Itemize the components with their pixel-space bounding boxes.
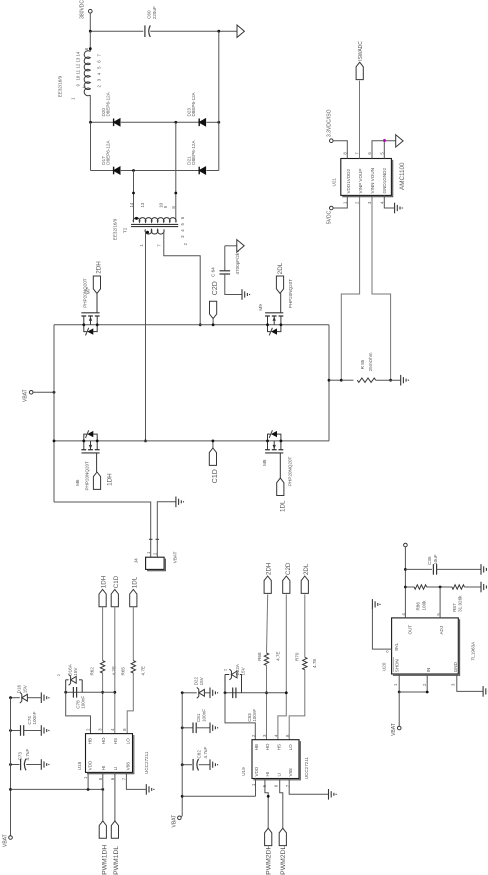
wire R68 to pin3 [265, 666, 268, 740]
inductor L1 left pin numbers [76, 51, 81, 86]
capacitor C74 [9, 711, 41, 735]
svg-text:C1D: C1D [212, 469, 219, 483]
svg-text:4700pF/2kV: 4700pF/2kV [235, 249, 240, 275]
wire diode row1 [89, 121, 220, 124]
zener D16A [56, 663, 82, 692]
svg-text:15V: 15V [241, 666, 246, 675]
U20 top pin numbers [401, 613, 441, 616]
svg-text:13: 13 [76, 57, 81, 62]
T2 right pin numbers [180, 216, 188, 245]
svg-text:14: 14 [129, 202, 134, 207]
svg-text:VBAT: VBAT [3, 834, 9, 847]
svg-text:VINN VOUN: VINN VOUN [370, 168, 375, 194]
svg-text:M6: M6 [75, 479, 80, 486]
svg-text:13: 13 [140, 202, 145, 207]
svg-text:VINP VOUP: VINP VOUP [358, 169, 363, 194]
flag PWM2DH [265, 828, 273, 875]
terminal arrow right (U21 out) [396, 135, 403, 147]
inductor L1 EE32/16/9 [58, 51, 91, 98]
svg-text:SHDN: SHDN [395, 659, 400, 672]
svg-text:R70: R70 [295, 652, 300, 661]
svg-text:1DL: 1DL [132, 576, 139, 588]
flag 1DL (M8 gate) [277, 478, 287, 512]
wire C1D to pin4 [113, 607, 116, 734]
wire U18 VDD rail [9, 698, 12, 836]
svg-text:D22: D22 [194, 677, 199, 686]
wire inductor bottom lead [70, 85, 90, 122]
svg-text:D16A: D16A [68, 663, 73, 675]
wire R70 to pin8 [289, 670, 305, 740]
resistor R85 25mOhm [357, 352, 375, 382]
wire R62 to junction [101, 673, 104, 734]
T2 bottom pin numbers [139, 244, 161, 247]
wire 380VDC rail with junction [89, 30, 143, 33]
wire U20 pin1 [398, 674, 401, 693]
svg-text:10uF: 10uF [433, 554, 438, 565]
flag C1D (driver out) [111, 575, 120, 607]
svg-text:OUT: OUT [408, 625, 413, 635]
svg-text:1DL: 1DL [279, 500, 286, 512]
svg-text:PWM1DL: PWM1DL [113, 846, 120, 875]
svg-text:3.3VDC/ISO: 3.3VDC/ISO [327, 109, 333, 137]
svg-text:31.926k: 31.926k [458, 595, 463, 612]
wire 2DH to R68 [267, 594, 268, 652]
svg-text:D8EP6-12A: D8EP6-12A [191, 91, 196, 116]
svg-text:LO: LO [288, 744, 293, 751]
wire J4 pin2 to ground [157, 502, 175, 557]
svg-text:C74: C74 [27, 716, 32, 725]
ground (D22) [210, 688, 218, 699]
wire HB to pin2 [66, 692, 91, 733]
svg-text:D8EP6-12A: D8EP6-12A [106, 140, 111, 165]
wire R86-R87 node [427, 586, 452, 589]
zener D16 [9, 684, 41, 703]
svg-text:1DH: 1DH [106, 473, 113, 486]
wire M8 gate [279, 453, 281, 478]
svg-text:U20: U20 [382, 662, 387, 671]
terminal arrow right (top) [237, 25, 244, 37]
resistor R68 4.7E [257, 651, 280, 665]
svg-text:VBAT: VBAT [391, 723, 397, 736]
wire U18 pin7 to ground [126, 772, 145, 789]
svg-text:C82: C82 [196, 750, 201, 759]
svg-text:C60: C60 [146, 10, 151, 19]
svg-text:14: 14 [76, 51, 81, 56]
svg-text:2DH: 2DH [266, 563, 273, 575]
svg-text:V88: V88 [288, 768, 293, 777]
ground (C35) [481, 564, 488, 575]
wire C2D to pin4 [278, 594, 286, 739]
flag 1DH (driver out) [99, 576, 108, 607]
svg-text:ADJ: ADJ [439, 626, 444, 635]
wire U20 pin2 [399, 674, 428, 693]
node 380VDC terminal [80, 0, 93, 31]
svg-text:4.7E: 4.7E [112, 666, 117, 675]
svg-text:VBAT: VBAT [23, 389, 29, 402]
svg-text:TAB: TAB [394, 643, 399, 651]
svg-text:HB: HB [87, 738, 92, 744]
wire U18 pin5 PWM1DH [102, 772, 104, 821]
wire inductor top lead [84, 31, 92, 51]
U21 top pin numbers [342, 152, 384, 155]
U18 top pin numbers [86, 728, 128, 731]
svg-text:T2: T2 [123, 227, 128, 233]
svg-text:HI: HI [101, 766, 106, 771]
flag C2D (rail R1) [210, 281, 219, 326]
diode D17 [101, 140, 120, 175]
svg-text:U19: U19 [241, 767, 246, 776]
wire M9 gate [280, 293, 282, 312]
svg-text:VBAT: VBAT [173, 551, 178, 563]
zener D22A [223, 663, 246, 693]
wire bridge right column [218, 31, 220, 170]
svg-text:GND1GND2: GND1GND2 [382, 168, 387, 194]
svg-text:M9: M9 [258, 304, 263, 311]
U19 pin names top [254, 743, 293, 750]
ic U19 UCC27211 box [241, 740, 309, 780]
ground (J4) [176, 497, 184, 508]
ic U18 UCC27211 box [77, 734, 149, 774]
svg-text:11: 11 [76, 69, 81, 74]
svg-text:AMC1100: AMC1100 [399, 162, 406, 190]
capacitor C64 [211, 246, 242, 295]
svg-text:R68: R68 [257, 652, 262, 661]
svg-text:100k: 100k [421, 600, 426, 611]
svg-text:C2D: C2D [285, 562, 292, 575]
flag 2DL (M9 gate) [276, 262, 284, 293]
ground (U20 TAB) [372, 599, 380, 610]
wire U19 pin7 to ground [289, 779, 328, 795]
ground (U19 pin7) [329, 789, 337, 800]
resistor R87 31.926k [452, 585, 464, 612]
zener D22 [181, 676, 210, 698]
svg-text:IN: IN [426, 668, 431, 673]
U19 top pin numbers [251, 734, 290, 737]
svg-text:1DH: 1DH [101, 576, 108, 588]
wire VDD horizontal [11, 788, 105, 791]
svg-text:J4: J4 [134, 558, 139, 563]
svg-text:5VDC: 5VDC [326, 210, 332, 224]
svg-text:R 85: R 85 [360, 359, 365, 369]
transistor M8 [262, 430, 292, 486]
svg-text:C2D: C2D [212, 281, 219, 295]
net 5VDC [326, 195, 347, 224]
svg-text:C1D: C1D [113, 575, 120, 588]
wire 1DH to R62 [102, 607, 104, 661]
flag 1DH (M6 gate) [93, 472, 113, 489]
wire T2 sec pin1 to rail R2 [144, 231, 147, 442]
U21 bottom pin numbers [342, 201, 384, 204]
svg-text:U21: U21 [332, 178, 337, 187]
svg-text:2DL: 2DL [303, 563, 310, 575]
svg-text:HO: HO [265, 743, 270, 750]
diode D21 [186, 140, 205, 175]
transformer T2 secondary [145, 229, 164, 234]
svg-text:4.7uF: 4.7uF [203, 747, 208, 759]
svg-text:VDD1VDD2: VDD1VDD2 [346, 169, 351, 194]
svg-text:VDD: VDD [87, 760, 92, 770]
wire 1DL to R65 [132, 607, 134, 661]
wire rail R1 [54, 324, 329, 326]
ground (R87) [481, 582, 488, 593]
wire rail R2 [54, 440, 329, 442]
wire U20 TAB to ground [372, 610, 391, 649]
wire C60 to arrow [150, 30, 237, 33]
capacitor C81 [181, 709, 210, 733]
svg-text:LO: LO [126, 738, 131, 745]
wire VBAT bus [53, 325, 55, 441]
wire U21 pin7 ISWADC [359, 81, 361, 159]
op-amp U21 AMC1100 box [332, 159, 407, 197]
U18 pin names bottom [87, 760, 130, 770]
svg-text:PHP20NQ20T: PHP20NQ20T [82, 278, 87, 308]
wire M7 gate [96, 293, 98, 312]
U21 pin names [346, 168, 387, 194]
svg-text:R62: R62 [90, 667, 95, 676]
svg-text:PHP20NQ20T: PHP20NQ20T [288, 279, 293, 309]
U20 bottom pin numbers [393, 683, 456, 686]
wire R87 to ground [464, 586, 480, 588]
svg-text:2DL: 2DL [277, 262, 284, 274]
svg-text:100nF: 100nF [202, 709, 207, 722]
svg-text:HO: HO [101, 737, 106, 744]
svg-text:PWM2DH: PWM2DH [266, 845, 273, 875]
flag C1D (rail R2) [209, 440, 219, 484]
U18 pin names top [87, 737, 130, 744]
svg-text:PWM2DL: PWM2DL [280, 846, 287, 875]
diode D23 [186, 91, 205, 126]
svg-text:D8EP6-12A: D8EP6-12A [191, 140, 196, 165]
wire U19 HB to pin2 [225, 693, 255, 740]
wire R65 to pin8 [127, 673, 133, 734]
svg-text:4.7E: 4.7E [141, 666, 146, 675]
svg-text:TL1963A: TL1963A [470, 641, 475, 661]
wire J4 pin1 feed [53, 440, 151, 558]
ground (C74) [41, 725, 49, 736]
svg-text:C 64: C 64 [211, 267, 216, 277]
flag ISWADC [356, 41, 364, 80]
svg-text:HB: HB [254, 744, 259, 750]
flag C2D (driver out) [283, 562, 292, 593]
ground (C64) [242, 289, 250, 300]
svg-text:15V: 15V [73, 667, 78, 676]
svg-text:12: 12 [76, 63, 81, 68]
svg-text:C81: C81 [196, 713, 201, 722]
svg-text:PHP20NQ20T: PHP20NQ20T [287, 456, 292, 486]
wire R86 feed [405, 586, 414, 588]
svg-text:EE32/16/9: EE32/16/9 [113, 218, 118, 240]
svg-text:15V: 15V [22, 684, 27, 693]
net VBAT (U18) [3, 834, 13, 847]
diode D20 [101, 91, 120, 126]
svg-text:4.7E: 4.7E [312, 659, 317, 668]
svg-text:LI: LI [277, 773, 282, 777]
svg-text:M8: M8 [262, 459, 267, 466]
wire shunt loop left [340, 195, 360, 381]
ground (U18 pin7) [146, 784, 154, 795]
wire U20 pin3 to ground [457, 674, 483, 691]
transistor M7 [81, 278, 99, 335]
svg-text:UCC27211: UCC27211 [304, 756, 309, 779]
transistor M6 [75, 430, 100, 490]
wire U20 pin5 ADJ [439, 587, 441, 618]
capacitor C60 [145, 6, 157, 37]
wire U19 pin5 PWM2DH [265, 779, 270, 829]
wire U19 VDD rail [181, 693, 184, 816]
svg-text:100nF: 100nF [252, 709, 257, 722]
ground (C82) [210, 759, 218, 770]
net VBAT terminal (left) [23, 389, 56, 402]
capacitor C78 [73, 687, 85, 709]
terminal arrow right (C64) [237, 240, 244, 252]
wire T2 primary left lead [132, 171, 135, 223]
svg-text:10: 10 [76, 75, 81, 80]
resistor R70 4.7E [295, 652, 317, 670]
svg-text:UCC27211: UCC27211 [144, 751, 149, 774]
svg-text:HS: HS [113, 738, 118, 744]
svg-text:D16: D16 [17, 684, 22, 693]
T2 top pin numbers [129, 202, 176, 208]
svg-text:ISWADC: ISWADC [358, 41, 364, 61]
resistor R65 4.7E [121, 661, 146, 676]
svg-text:C35: C35 [427, 556, 432, 565]
svg-text:380VDC: 380VDC [80, 0, 86, 19]
capacitor C73 [9, 749, 41, 771]
capacitor C35 [405, 554, 480, 574]
ground (U20 pin3) [483, 686, 488, 697]
net VBAT (U19) [172, 815, 183, 828]
U18 bottom pin numbers [83, 776, 126, 780]
transformer T2 core [131, 224, 178, 226]
wire T2 sec pin7 to rail R1 [164, 231, 202, 326]
svg-text:HS: HS [277, 744, 282, 750]
wire U21 pin4 to ground [384, 195, 394, 208]
wire bridge left column [90, 122, 92, 170]
wire T2 primary right lead [174, 122, 177, 222]
svg-text:4.7uF: 4.7uF [25, 749, 30, 761]
resistor R62 4.7E [90, 661, 117, 676]
svg-text:R86: R86 [416, 602, 421, 611]
transistor M9 [258, 279, 293, 336]
wire shunt bottom left [341, 379, 353, 381]
wire U19 VDD horizontal [182, 795, 255, 797]
svg-text:U18: U18 [77, 761, 82, 770]
svg-text:V88: V88 [126, 762, 131, 771]
U19 pin names bottom [254, 766, 293, 776]
flag PWM1DL [111, 821, 120, 875]
wire shunt loop right [372, 195, 392, 381]
wire U18 pin1 [87, 772, 89, 789]
wire U21 pins 5-6 [372, 141, 396, 159]
flag 2DH (driver out) [264, 563, 272, 594]
ground (U21) [395, 203, 403, 214]
svg-text:L: L [82, 85, 88, 88]
node U20 output terminal [404, 543, 408, 618]
svg-text:15V: 15V [199, 676, 204, 685]
wire U19 pin6 PWM2DL [280, 779, 283, 829]
svg-text:220uF: 220uF [152, 6, 157, 19]
svg-text:EE32/16/9: EE32/16/9 [58, 75, 63, 97]
ground (C73) [41, 759, 49, 770]
wire M6 gate [96, 453, 98, 472]
svg-text:D8EP6-12A: D8EP6-12A [106, 91, 111, 116]
svg-text:100nF: 100nF [81, 696, 86, 709]
svg-text:LI: LI [113, 767, 118, 771]
resistor R86 100k [414, 585, 426, 611]
flag PWM2DL [279, 828, 287, 875]
wire HB node [64, 691, 115, 694]
wire U18 pin6 PWM1DL [114, 772, 116, 821]
flag 2DH (M7 gate) [93, 261, 102, 294]
ground (C81) [210, 723, 218, 734]
transformer T2 primary [133, 217, 176, 222]
svg-text:100nF: 100nF [32, 711, 37, 724]
svg-text:2DH: 2DH [95, 261, 102, 274]
capacitor C83 [233, 688, 257, 722]
wire U19 pin1 [255, 779, 257, 797]
regulator U20 TL1963A box [382, 618, 476, 675]
U19 bottom pin numbers [251, 783, 290, 787]
svg-text:25mOhm: 25mOhm [368, 352, 373, 371]
svg-text:R65: R65 [121, 667, 126, 676]
flag PWM1DH [99, 821, 108, 875]
wire diode row2 [91, 169, 219, 172]
U20 pin names [385, 625, 458, 673]
capacitor C82 [181, 747, 210, 771]
ground (D16) [41, 692, 49, 703]
net VBAT (U20) [391, 692, 401, 736]
svg-text:4.7E: 4.7E [275, 651, 280, 660]
wire C64 top [225, 245, 237, 247]
flag 1DL (driver out) [130, 576, 139, 607]
net 3.3VDC/ISO [327, 109, 348, 158]
ground (shunt) [401, 375, 409, 386]
svg-text:GND: GND [453, 661, 458, 672]
svg-text:VBAT: VBAT [172, 815, 178, 828]
connector J4 [134, 551, 178, 570]
J4 pin ticks [146, 539, 159, 555]
svg-text:PHP20NQ20T: PHP20NQ20T [84, 461, 89, 491]
svg-text:VDD: VDD [254, 766, 259, 776]
inductor L1 right pin numbers [97, 54, 102, 88]
wire shunt feed [329, 379, 341, 381]
svg-text:HI: HI [265, 772, 270, 777]
wire bridge right leg [328, 325, 331, 441]
svg-text:R87: R87 [452, 603, 457, 612]
flag 2DL (driver out) [301, 563, 310, 593]
svg-text:C73: C73 [18, 752, 23, 761]
transformer T2 labels [113, 218, 128, 240]
svg-text:PWM1DH: PWM1DH [101, 845, 108, 875]
wire U19 HB node [224, 691, 288, 694]
wire shunt bottom right [376, 379, 401, 381]
wire 2DL to R70 [304, 594, 306, 657]
svg-text:D22A: D22A [235, 663, 240, 675]
